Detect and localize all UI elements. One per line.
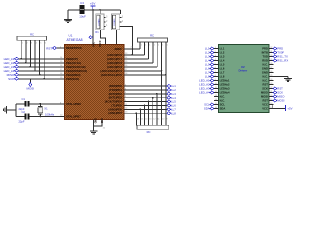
wire U2 pin 16: [214, 108, 219, 110]
svg-text:LL3: LL3: [205, 55, 210, 59]
wire pin PD0: [124, 85, 130, 87]
wire RN1 pin 3: [29, 40, 31, 67]
svg-text:U1: U1: [69, 33, 73, 37]
node dots left staircase: [20, 58, 22, 60]
node junction PD4: [148, 101, 150, 103]
wire U2 pin 21: [269, 92, 274, 94]
ground: [93, 129, 95, 131]
svg-text:(ADC2)PC2: (ADC2)PC2: [107, 61, 122, 65]
wire: [8, 109, 16, 111]
op-amp U2 driver body: [218, 45, 269, 113]
svg-text:(ADC3)PC3: (ADC3)PC3: [107, 65, 122, 69]
svg-text:ATMEGA8: ATMEGA8: [67, 38, 83, 42]
wire pin PD5: [124, 104, 130, 106]
wire to ground: [274, 76, 288, 78]
wire pin RESET: [59, 47, 65, 49]
svg-text:RESET/PC6: RESET/PC6: [66, 46, 82, 50]
svg-text:LL6: LL6: [171, 104, 176, 108]
wire VCC: [92, 10, 94, 44]
wire: [56, 47, 64, 49]
wire U2 pin 15: [214, 104, 219, 106]
svg-text:(XCK/T0)PD4: (XCK/T0)PD4: [105, 100, 123, 104]
wire net LL4: [130, 97, 168, 99]
wire pin PB4: [59, 74, 65, 76]
node LL4: [167, 96, 171, 99]
wire U2 pin 14: [214, 100, 219, 102]
wire GND pins: [93, 120, 95, 131]
svg-text:LL4: LL4: [171, 96, 176, 100]
wire pin PB2: [59, 66, 65, 68]
svg-text:PRD: PRD: [277, 47, 283, 51]
svg-text:LL5: LL5: [171, 100, 176, 104]
node B: [99, 9, 101, 11]
wire PD4 to RN3: [148, 102, 150, 126]
wire RN1 pin 2: [25, 40, 27, 63]
wire U2 pin 23: [269, 84, 274, 86]
wire U2 pin 12: [214, 92, 219, 94]
wire pin PB3: [59, 70, 65, 72]
wire RN1 pin 5: [39, 40, 41, 75]
wire PD7 to RN3: [135, 113, 137, 125]
wire VCC join: [272, 105, 274, 109]
wire U2 pin 17: [269, 108, 274, 110]
svg-text:LED_k4: LED_k4: [4, 69, 15, 73]
op-amp U1 ATMEGA8 body: [64, 44, 124, 119]
wire U2 pin 19: [269, 100, 274, 102]
svg-text:PB5(SCK): PB5(SCK): [66, 77, 79, 81]
svg-text:LL8: LL8: [205, 75, 210, 79]
wire pin XTAL2: [59, 115, 65, 117]
wire RN1 pin 1: [20, 40, 22, 59]
svg-text:PB1(OC1A): PB1(OC1A): [66, 61, 81, 65]
node PRD: [273, 47, 277, 50]
wire pin PB0: [59, 58, 65, 60]
node SCL: [210, 103, 214, 106]
wire U2 pin 1: [214, 48, 219, 50]
node junction PD6: [140, 108, 142, 110]
svg-text:(ADC0)PC0: (ADC0)PC0: [107, 53, 122, 57]
wire PC0 to RN2: [143, 42, 145, 55]
wire pin PC1: [124, 58, 130, 60]
svg-text:(ADC5/SCL)PC5: (ADC5/SCL)PC5: [101, 73, 123, 77]
wire +5V rail: [68, 9, 121, 11]
capacitor C2: [16, 115, 25, 117]
wire PC1 to RN2: [148, 42, 150, 59]
wire PD5 to RN3: [144, 105, 146, 125]
svg-text:(AIN1)PD7: (AIN1)PD7: [108, 111, 122, 115]
svg-text:(ADC1)PC1: (ADC1)PC1: [107, 57, 122, 61]
wire pin PB5: [59, 78, 65, 80]
wire U2 pin 30: [269, 56, 274, 58]
wire U2 pin 18: [269, 104, 274, 106]
svg-text:LED_A3: LED_A3: [199, 87, 210, 91]
resistor pack RN1: [17, 36, 47, 40]
wire PD6 to RN3: [139, 109, 141, 125]
wire PC2 to RN2: [152, 42, 154, 63]
wire U2 pin 5: [214, 64, 219, 66]
wire U2 pin 4: [214, 60, 219, 62]
svg-text:MISO: MISO: [277, 95, 285, 99]
svg-text:+5V: +5V: [90, 2, 95, 6]
resistor pack RN3: [137, 125, 169, 129]
wire U2 pin 31: [269, 52, 274, 54]
wire U2 pin 24: [269, 80, 274, 82]
svg-text:GND: GND: [100, 118, 103, 124]
svg-text:LL3: LL3: [171, 92, 176, 96]
wire U2 pin 13: [214, 96, 219, 98]
wire net LL2: [130, 89, 168, 91]
node junction PD7: [135, 112, 137, 114]
svg-text:MOSI: MOSI: [26, 86, 34, 90]
connector J1: [96, 14, 104, 30]
node LL1: [167, 85, 171, 88]
node junction PD3: [152, 97, 154, 99]
svg-text:LED_A1: LED_A1: [199, 79, 210, 83]
wire U2 pin 27: [269, 68, 274, 70]
svg-text:XTAL2/PB7: XTAL2/PB7: [66, 114, 81, 118]
wire PD2 to RN3: [156, 94, 158, 126]
svg-text:LL8: LL8: [171, 111, 176, 115]
power +5V: [285, 105, 286, 111]
wire J2 pin1 to PC0 net: [121, 26, 132, 55]
wire label arrow: [89, 36, 93, 39]
svg-text:RS1_TX: RS1_TX: [277, 55, 288, 59]
wire: [99, 10, 101, 14]
node SCK: [273, 91, 277, 94]
node LL6: [167, 104, 171, 107]
wire net LL6: [130, 104, 168, 106]
svg-text:10uF: 10uF: [79, 15, 86, 19]
svg-text:LED_k1: LED_k1: [4, 57, 15, 61]
wire net LL5: [130, 101, 168, 103]
wire U2 pin 3: [214, 56, 219, 58]
svg-text:SCK: SCK: [277, 91, 283, 95]
wire J1 to AVCC: [101, 30, 106, 45]
svg-text:(INT0)PD2: (INT0)PD2: [109, 92, 123, 96]
wire U2 pin 25: [269, 76, 274, 78]
wire: [19, 74, 65, 76]
wire U2 pin 8: [214, 76, 219, 78]
node LL7: [167, 108, 171, 111]
svg-text:(AIN0)PD6: (AIN0)PD6: [108, 107, 122, 111]
wire net LL1: [130, 85, 168, 87]
wire PC3 to RN2: [156, 42, 158, 67]
svg-text:(T1)PD5: (T1)PD5: [111, 103, 122, 107]
wire pin PC2: [124, 62, 130, 64]
wire U2 pin 7: [214, 72, 219, 74]
wire pin PD6: [124, 108, 130, 110]
svg-text:PB4(MISO): PB4(MISO): [66, 73, 81, 77]
wire net LL7: [130, 108, 168, 110]
node TX0F: [273, 51, 277, 54]
svg-text:LED_A2: LED_A2: [199, 83, 210, 87]
ground: [67, 18, 69, 20]
wire U2 pin 11: [214, 88, 219, 90]
wire U2 pin 2: [214, 52, 219, 54]
node LL2: [210, 51, 214, 54]
svg-text:XTAL1/PB6: XTAL1/PB6: [66, 102, 81, 106]
wire: [19, 70, 65, 72]
wire net LL3: [130, 93, 168, 95]
svg-text:SDA: SDA: [204, 107, 210, 111]
node SDA: [210, 107, 214, 110]
svg-text:(ADC4/SDA)PC4: (ADC4/SDA)PC4: [100, 69, 122, 73]
node LL4: [210, 59, 214, 62]
node junction PD5: [144, 105, 146, 107]
crystal X1: [39, 103, 41, 105]
wire RN1 pin 6: [43, 40, 45, 79]
wire pin PD4: [124, 101, 130, 103]
svg-text:LL5: LL5: [205, 63, 210, 67]
node LL3: [167, 92, 171, 95]
svg-text:C3: C3: [80, 1, 84, 5]
svg-text:LL6: LL6: [205, 67, 210, 71]
wire pin XTAL1: [59, 103, 65, 105]
wire net LL8: [130, 112, 168, 114]
wire U2 pin 28: [269, 64, 274, 66]
wire U2 pin 22: [269, 88, 274, 90]
svg-text:LED_A4: LED_A4: [199, 91, 210, 95]
svg-text:RS1_RX: RS1_RX: [277, 59, 288, 63]
svg-text:SCK: SCK: [8, 77, 14, 81]
svg-text:(INT1)PD3: (INT1)PD3: [109, 96, 123, 100]
svg-text:LL2: LL2: [205, 51, 210, 55]
svg-text:VCC: VCC: [92, 42, 95, 47]
svg-text:AREF: AREF: [114, 47, 122, 51]
node PC4 junction: [161, 70, 163, 72]
svg-text:(RXD)PD0: (RXD)PD0: [109, 84, 123, 88]
svg-text:LL2: LL2: [171, 88, 176, 92]
node RS1_TX: [273, 55, 277, 58]
ground: [287, 77, 289, 79]
node LL2: [167, 88, 171, 91]
wire: [120, 10, 122, 14]
wire U2 pin 10: [214, 84, 219, 86]
svg-text:Driver: Driver: [238, 69, 248, 73]
svg-text:LL1: LL1: [205, 47, 210, 51]
wire pin PD3: [124, 97, 130, 99]
node RS1_RX: [273, 59, 277, 62]
svg-text:RST: RST: [46, 46, 52, 50]
wire RN1 pin 4: [34, 40, 36, 71]
capacitor C3: [80, 5, 84, 14]
wire pin PD7: [124, 112, 130, 114]
wire pin PC5: [124, 74, 130, 76]
wire pin PC4: [124, 70, 130, 72]
node LL1: [210, 47, 214, 50]
node LL8: [210, 75, 214, 78]
node LL3: [210, 55, 214, 58]
node PC5 junction: [165, 74, 167, 76]
node LL8: [167, 112, 171, 115]
svg-text:TX0F: TX0F: [277, 51, 284, 55]
wire pin PD2: [124, 93, 130, 95]
wire J2 to chip top: [116, 30, 118, 45]
ground: [7, 109, 9, 111]
node junction PD2: [156, 93, 158, 95]
node MISO: [273, 95, 277, 98]
wire pin AREF: [124, 48, 130, 50]
wire U2 pin 9: [214, 80, 219, 82]
node LL6: [210, 67, 214, 70]
wire U2 pin 32: [269, 48, 274, 50]
wire pin PD1: [124, 89, 130, 91]
wire pin PB1: [59, 62, 65, 64]
node junction PC0: [131, 54, 133, 56]
svg-text:+5V: +5V: [287, 107, 292, 111]
node LL5: [167, 100, 171, 103]
svg-text:MISO: MISO: [7, 73, 15, 77]
wire: [19, 78, 65, 80]
svg-text:LED_k3: LED_k3: [4, 65, 15, 69]
wire PD3 to RN3: [152, 98, 154, 126]
svg-text:SCL: SCL: [204, 103, 210, 107]
svg-text:PB2(SS/OC1B): PB2(SS/OC1B): [66, 65, 86, 69]
svg-text:MOSI: MOSI: [277, 99, 284, 103]
wire: [19, 66, 65, 68]
wire U2 pin 6: [214, 68, 219, 70]
node MOSI: [29, 79, 31, 84]
connector J2: [112, 14, 120, 30]
resistor pack RN2: [138, 38, 168, 42]
node MOSI: [273, 99, 277, 102]
capacitor C1: [16, 103, 25, 105]
svg-text:LED_k2: LED_k2: [4, 61, 15, 65]
wire AREF net: [124, 48, 140, 50]
node LED_A4: [210, 91, 214, 94]
node RST: [273, 87, 277, 90]
wire pin PC3: [124, 66, 130, 68]
svg-text:RST: RST: [277, 87, 283, 91]
wire PC4 net vertical: [161, 42, 163, 125]
node LED_A2: [210, 83, 214, 86]
wire: [19, 62, 65, 64]
svg-text:CONN3: CONN3: [114, 18, 116, 26]
svg-text:LL7: LL7: [205, 71, 210, 75]
svg-text:LL7: LL7: [171, 107, 176, 111]
svg-text:(TXD)PD1: (TXD)PD1: [109, 88, 122, 92]
node LED_A3: [210, 87, 214, 90]
wire: [19, 58, 65, 60]
node A: [92, 9, 94, 11]
wire PC5 net vertical: [165, 42, 167, 125]
svg-text:CONN3: CONN3: [98, 18, 100, 26]
wire U2 pin 29: [269, 60, 274, 62]
svg-text:PB0(ICP): PB0(ICP): [66, 57, 78, 61]
wire U2 pin 26: [269, 72, 274, 74]
svg-text:LL4: LL4: [205, 59, 210, 63]
wire pin PC0: [124, 54, 130, 56]
svg-text:PB3(MOSI/OC2): PB3(MOSI/OC2): [66, 69, 87, 73]
svg-text:U2: U2: [241, 65, 245, 69]
node LL7: [210, 71, 214, 74]
svg-text:LL1: LL1: [171, 84, 176, 88]
node LL5: [210, 63, 214, 66]
node LED_A1: [210, 79, 214, 82]
wire U2 pin 20: [269, 96, 274, 98]
svg-text:AVCC: AVCC: [99, 40, 102, 47]
